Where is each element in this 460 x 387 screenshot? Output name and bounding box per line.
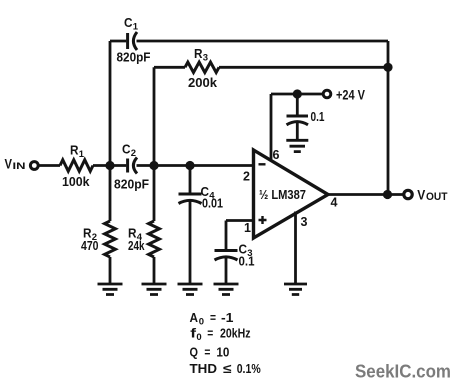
op-amp U1 ½ LM387 <box>254 150 329 238</box>
ground C3 <box>214 284 239 295</box>
node A junction R1/C2/C1-loop <box>105 161 114 170</box>
wire node C to C4 <box>189 166 192 193</box>
svg-text:Q: Q <box>190 345 199 360</box>
svg-text:20kHz: 20kHz <box>220 326 251 341</box>
svg-text:24k: 24k <box>128 238 145 253</box>
svg-text:OUT: OUT <box>426 191 448 203</box>
svg-text:½ LM387: ½ LM387 <box>259 187 306 202</box>
wire node B to R4 <box>153 166 156 222</box>
node B junction C2/R3-loop/R4 <box>149 161 158 170</box>
svg-text:-1: -1 <box>221 310 234 325</box>
wire bypass cap to ground <box>296 122 299 140</box>
wire node A to R2 <box>109 166 112 222</box>
svg-text:820pF: 820pF <box>117 50 151 65</box>
ground C4 <box>178 284 203 295</box>
svg-text:1: 1 <box>133 22 139 33</box>
node junction R3/C1 feedback <box>383 63 392 72</box>
wire right vertical feedback <box>387 41 390 195</box>
svg-text:470: 470 <box>81 238 99 253</box>
svg-text:V: V <box>417 187 426 203</box>
svg-text:4: 4 <box>331 196 338 210</box>
svg-text:820pF: 820pF <box>114 177 149 192</box>
svg-text:=: = <box>204 345 210 360</box>
svg-text:IN: IN <box>13 161 26 171</box>
ground bypass <box>286 140 308 151</box>
node junction bypass cap <box>293 89 302 98</box>
svg-text:200k: 200k <box>188 75 218 90</box>
wire op-amp pin 3 to ground <box>294 212 297 284</box>
VIN terminal <box>30 162 38 170</box>
wire R3 to feedback node <box>219 66 388 69</box>
capacitor 0.1 bypass <box>287 115 309 118</box>
wire pin 6 vertical <box>270 94 273 161</box>
resistor R4 <box>149 221 160 257</box>
wire R2 to ground <box>109 257 112 283</box>
svg-text:0.1: 0.1 <box>239 254 255 269</box>
svg-text:V: V <box>5 156 13 172</box>
svg-text:0.1%: 0.1% <box>237 361 261 376</box>
wire C4 to ground <box>189 200 192 283</box>
resistor R3 <box>185 62 219 72</box>
svg-text:C: C <box>122 142 131 157</box>
wire R3 loop vertical <box>153 67 156 165</box>
capacitor C2 <box>126 159 129 173</box>
node C junction C4 branch <box>185 161 194 170</box>
wire C3 to ground <box>225 257 228 283</box>
ground R4 <box>142 284 167 295</box>
svg-text:≤: ≤ <box>223 361 232 376</box>
capacitor C3 <box>215 249 238 252</box>
ground R2 <box>98 284 123 295</box>
svg-text:6: 6 <box>273 148 280 162</box>
svg-text:3: 3 <box>203 53 208 64</box>
svg-text:100k: 100k <box>62 174 90 189</box>
svg-text:0: 0 <box>199 317 204 328</box>
svg-text:2: 2 <box>131 148 136 159</box>
wire op-amp pin 1 horizontal <box>226 219 254 222</box>
wire R3 loop left <box>154 66 185 69</box>
wire junction to bypass cap <box>296 94 299 115</box>
svg-text:10: 10 <box>216 345 229 360</box>
wire C2 to op-amp pin 2 <box>137 164 254 167</box>
svg-text:R: R <box>70 143 79 158</box>
svg-text:3: 3 <box>301 215 308 229</box>
svg-text:R: R <box>194 46 203 61</box>
ground pin 3 <box>284 284 307 295</box>
svg-text:A: A <box>190 310 199 325</box>
capacitor C4 <box>179 193 202 196</box>
svg-text:2: 2 <box>243 170 250 184</box>
wire C1 loop top left <box>110 40 126 43</box>
svg-text:=: = <box>210 310 216 325</box>
svg-text:THD: THD <box>190 361 218 376</box>
svg-text:0: 0 <box>196 332 201 343</box>
resistor R1 <box>60 160 93 171</box>
wire R1 to C2 <box>93 164 126 167</box>
wire C1 loop top right <box>137 40 389 43</box>
wire VIN to R1 <box>40 164 61 167</box>
svg-text:=: = <box>207 326 213 341</box>
+24V terminal <box>323 90 331 98</box>
svg-text:1: 1 <box>79 149 85 160</box>
capacitor C1 <box>126 33 129 49</box>
svg-text:1: 1 <box>244 221 251 235</box>
svg-text:SeekIC.com: SeekIC.com <box>355 362 451 382</box>
op-amp plus sign pin 1 <box>259 216 267 224</box>
wire R4 to ground <box>153 257 156 283</box>
wire pin 6 to +24V terminal <box>271 93 322 96</box>
node junction output/feedback <box>383 190 392 199</box>
wire op-amp output to VOUT <box>328 193 403 196</box>
VOUT terminal <box>404 190 412 198</box>
op-amp minus sign pin 2 <box>259 163 266 165</box>
svg-text:0.01: 0.01 <box>202 196 223 211</box>
svg-text:0.1: 0.1 <box>311 109 325 124</box>
resistor R2 <box>105 221 116 257</box>
svg-text:+24 V: +24 V <box>336 88 365 103</box>
svg-text:C: C <box>124 15 133 30</box>
wire pin 1 down to C3 <box>225 221 228 250</box>
wire C1 loop left vertical <box>109 41 112 166</box>
